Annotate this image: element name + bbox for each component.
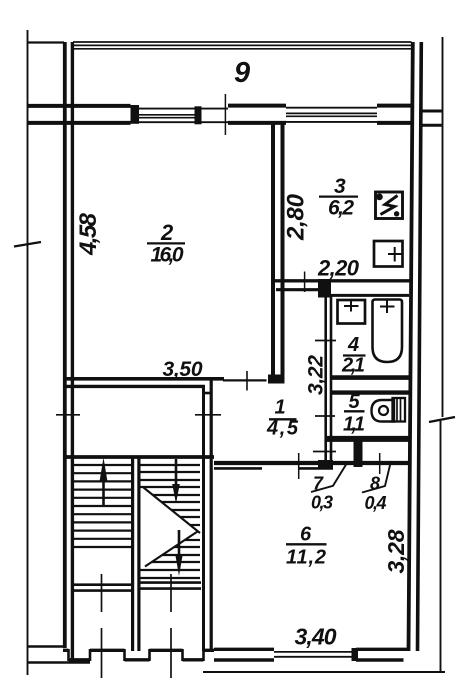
svg-text:11,2: 11,2 [286, 547, 326, 569]
wall bathroom-column left line inner [330, 294, 333, 462]
node bathroom door axis tick [315, 340, 336, 342]
node closet7 door axis tick [313, 451, 336, 453]
svg-text:5: 5 [349, 391, 361, 413]
stair cut diagonal upper [144, 488, 201, 534]
wire left cut line (party wall continuation) [27, 30, 29, 675]
wall top-right stub outer line [421, 110, 442, 113]
window room6 line 1 [274, 651, 356, 653]
wall corridor/stair partition inner line [210, 380, 213, 652]
svg-text:7: 7 [313, 474, 324, 494]
stair landing edge right flight line 1 [141, 581, 202, 584]
svg-text:2,20: 2,20 [317, 256, 360, 281]
kitchen sink cross [388, 247, 402, 262]
wire right cut line upper [442, 37, 444, 417]
washbasin [338, 300, 366, 324]
wall stair central divider line right [137, 456, 140, 651]
svg-text:6: 6 [300, 524, 312, 546]
window W2 kitchen sill outer line [286, 107, 377, 109]
stair treads right flight [141, 465, 201, 578]
fraction line room 5 [344, 410, 365, 412]
svg-text:3,22: 3,22 [305, 355, 328, 395]
window W1 sill inner line [139, 121, 228, 123]
svg-text:4: 4 [347, 334, 359, 356]
stair arrow down right flight lower [178, 530, 181, 556]
svg-text:8: 8 [370, 474, 380, 494]
svg-text:9: 9 [234, 57, 250, 89]
window W1 sill outer line [139, 108, 228, 110]
window room6 line 2 [274, 656, 356, 658]
washbasin cross [344, 301, 359, 312]
wall top band outer line segments [27, 104, 131, 108]
node bottom axis tick right [170, 628, 172, 678]
svg-text:3: 3 [334, 175, 346, 198]
window W2 kitchen glass line 2 [286, 115, 377, 117]
wall bathroom bottom line [330, 375, 409, 380]
node lobby door tick left wall [56, 414, 80, 416]
node landing axis tick left [101, 574, 103, 612]
svg-text:4,5: 4,5 [266, 418, 299, 440]
fraction line room 2 [147, 242, 185, 244]
kitchen sink [374, 241, 403, 267]
svg-text:3,40: 3,40 [295, 624, 337, 650]
svg-text:6,2: 6,2 [328, 197, 354, 220]
electric stove box U1 [376, 192, 403, 219]
wall room2 right partition outer line [271, 124, 275, 377]
wall pier cap left of window W1 [131, 105, 140, 124]
wall room6 bottom inner line segments [214, 658, 274, 661]
window W2 kitchen sill inner line [286, 121, 377, 123]
electric stove lightning bolt [381, 196, 398, 215]
wall corner fill kitchen/bathroom junction [318, 279, 331, 298]
wall top band inner line segments [27, 121, 131, 125]
wire top-left connector line [27, 41, 64, 43]
node bottom axis tick left [101, 628, 103, 678]
bathtub [373, 300, 403, 363]
wall wc bottom line [327, 436, 410, 442]
wall staircase top line [63, 455, 214, 459]
wall corner fill room2 bottom-right [268, 375, 285, 384]
node left break mark [14, 242, 41, 247]
stair arrow up left flight [102, 478, 105, 506]
leader line label 7 [311, 463, 347, 492]
wire bottom-left outer line B [28, 661, 90, 664]
window W2 kitchen glass line 1 [286, 112, 377, 114]
balcony railing line 1 [73, 41, 412, 43]
wall right outer line [418, 42, 422, 651]
svg-text:0,3: 0,3 [311, 493, 333, 513]
stair treads left flight [74, 465, 131, 547]
wall wc top line [330, 390, 409, 394]
fraction line room 1 [269, 418, 297, 420]
toilet bowl circle [379, 406, 388, 415]
toilet bowl [372, 400, 395, 422]
svg-text:3,50: 3,50 [163, 358, 203, 381]
wall stairwell bottom recessed profile [63, 650, 214, 660]
wire bottom-left outer line A [28, 645, 64, 647]
wall top-right stub inner line [421, 124, 442, 127]
wall closet divider pier fill [354, 441, 363, 467]
stair cut diagonal lower [145, 532, 198, 567]
stair landing edge left flight line 2 [73, 589, 131, 592]
svg-text:3,28: 3,28 [383, 529, 409, 573]
node wc door axis tick [315, 415, 335, 417]
fraction line room 3 [319, 195, 358, 197]
door room2 threshold line [223, 379, 267, 381]
node right break mark [429, 417, 455, 422]
node room6 door axis tick [298, 453, 300, 479]
window W1 glass line 2 [139, 117, 195, 119]
bathtub cross [380, 300, 395, 313]
node closet8 axis tick [379, 453, 381, 474]
wall room2 bottom outer line [63, 377, 224, 381]
fraction line room 6 [286, 543, 327, 545]
wall mullion pier between window and balcony door [195, 106, 202, 124]
svg-text:4,58: 4,58 [75, 212, 102, 256]
svg-text:1,1: 1,1 [343, 414, 365, 436]
wall left outer line [63, 42, 67, 648]
svg-text:2,80: 2,80 [283, 193, 310, 241]
stair arrow down right flight upper [175, 459, 178, 486]
svg-text:16,0: 16,0 [151, 244, 184, 267]
toilet tank [393, 398, 406, 422]
window W1 glass line 1 [139, 114, 195, 116]
node room2 door axis tick [246, 371, 248, 391]
wire bottom-right outer line [203, 671, 445, 673]
wall corridor/stair partition outer line [202, 385, 205, 651]
balcony railing line 2 [73, 44, 412, 46]
wall room2 right partition inner line [281, 124, 285, 377]
wall room6 top line [214, 461, 409, 465]
fraction line room 4 [343, 354, 366, 356]
svg-text:2,1: 2,1 [341, 355, 365, 377]
wall room2 bottom inner line [63, 385, 205, 388]
wall room6 top inner line segment right [299, 467, 333, 470]
electric stove corner blob [376, 194, 383, 201]
leader line label 8 [362, 461, 391, 493]
balcony railing line 3 [73, 48, 412, 50]
node balcony door axis tick [224, 94, 226, 135]
wall corner fill closet7 bottom-left [318, 460, 333, 468]
wire right cut line lower [440, 421, 442, 672]
node kitchen door axis tick [304, 272, 306, 293]
wall bathroom-column left line outer [324, 294, 327, 462]
svg-text:2: 2 [160, 220, 174, 245]
stair landing edge right flight line 2 [141, 587, 202, 590]
wall pier cap right of room6 window [352, 648, 359, 661]
svg-text:1: 1 [275, 397, 286, 419]
node landing axis tick right [170, 574, 172, 612]
wall kitchen bottom inner line [276, 288, 319, 291]
wall kitchen bottom outer line [271, 279, 411, 282]
svg-text:0,4: 0,4 [365, 493, 387, 513]
wall right inner line [409, 42, 413, 651]
wall stair central divider line left [131, 456, 134, 651]
wall left inner line [71, 42, 74, 661]
wall room6 top inner line segment left [214, 467, 262, 470]
stair landing edge left flight line 1 [73, 583, 131, 586]
wall room6 bottom outer line segments [214, 648, 274, 651]
toilet tank inner lines [397, 398, 401, 422]
electric stove dot [394, 211, 399, 216]
node lobby door tick corridor wall [195, 414, 221, 416]
wall bathroom top line [331, 294, 409, 297]
